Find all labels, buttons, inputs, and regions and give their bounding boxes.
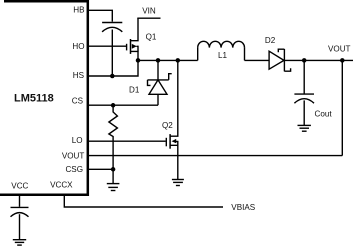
node Q2 drain tap	[176, 58, 181, 63]
capacitor Cout	[294, 60, 314, 125]
svg-text:HS: HS	[73, 71, 85, 80]
node CS / sense resistor tap	[111, 103, 116, 108]
diode D2 (schottky, pointing right)	[269, 49, 291, 71]
wire VOUT pin line	[88, 155, 342, 157]
ground (Q2 source)	[172, 180, 184, 186]
wire D2 cathode to VOUT	[284, 59, 353, 61]
transistor Q1 (N-MOSFET)	[127, 18, 138, 60]
wire CSG pin	[88, 168, 113, 170]
wire switch node to L1	[138, 59, 198, 61]
svg-text:LM5118: LM5118	[14, 93, 54, 105]
diode D1 (schottky, cathode up to switch node)	[148, 60, 172, 105]
wire VOUT feedback (output to VOUT pin)	[341, 60, 343, 155]
ground (Cout)	[298, 125, 311, 131]
wire HB pin	[88, 10, 112, 21]
svg-text:VOUT: VOUT	[328, 44, 351, 53]
wire VIN stub	[137, 17, 160, 19]
capacitor VCC bypass	[11, 207, 29, 239]
svg-text:L1: L1	[218, 51, 228, 60]
svg-text:VCC: VCC	[11, 182, 28, 191]
svg-text:CS: CS	[72, 97, 84, 106]
node Cout tap	[302, 58, 307, 63]
node VOUT feedback tap	[340, 58, 345, 63]
svg-text:LO: LO	[72, 136, 83, 145]
wire VCCX to VBIAS	[64, 196, 223, 208]
svg-text:Q1: Q1	[146, 33, 157, 42]
wire CS pin to D1 anode	[88, 104, 158, 106]
svg-text:VIN: VIN	[142, 6, 156, 15]
wire VCC pin down	[19, 196, 21, 207]
svg-text:VCCX: VCCX	[50, 181, 73, 190]
svg-text:Cout: Cout	[315, 109, 333, 118]
resistor current sense (CS to CSG)	[109, 105, 118, 169]
inductor L1	[198, 41, 245, 60]
svg-text:VOUT: VOUT	[62, 152, 85, 161]
wire L1 to D2	[245, 59, 270, 61]
node D1 cathode tap	[156, 58, 161, 63]
ground (VCC cap)	[13, 240, 26, 245]
node HS junction (bootstrap cap to HS wire)	[110, 74, 115, 79]
svg-text:HO: HO	[72, 42, 84, 51]
node switch (Q1 source / HS)	[136, 58, 141, 63]
svg-text:HB: HB	[73, 5, 84, 14]
transistor Q2 (N-MOSFET)	[166, 60, 178, 179]
wire HO pin to Q1 gate	[88, 45, 126, 47]
capacitor bootstrap (HB-HS)	[102, 23, 122, 77]
IC U1 LM5118 outline	[0, 1, 88, 194]
svg-text:D2: D2	[265, 36, 276, 45]
ground (CSG)	[107, 169, 120, 190]
svg-text:CSG: CSG	[65, 165, 83, 174]
svg-text:Q2: Q2	[162, 121, 173, 130]
node CSG junction	[111, 167, 116, 172]
svg-text:VBIAS: VBIAS	[231, 203, 255, 212]
svg-text:D1: D1	[129, 85, 140, 94]
wire LO pin to Q2 gate	[88, 140, 166, 142]
wire HS pin	[88, 60, 138, 76]
